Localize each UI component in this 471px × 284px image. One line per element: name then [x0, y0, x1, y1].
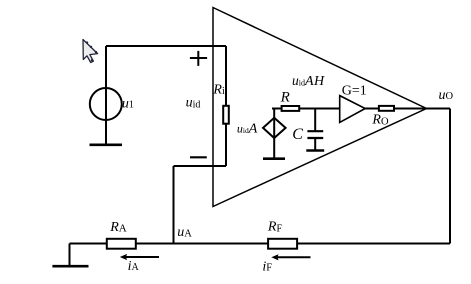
- resistor Ri: [223, 106, 229, 124]
- dependent source uidA (diamond): [263, 118, 286, 138]
- wire (vertical through source u1): [105, 46, 107, 145]
- ground (under u1): [90, 144, 123, 147]
- svg-text:uA: uA: [177, 225, 192, 240]
- ground (under capacitor): [306, 149, 324, 152]
- current arrow iA: [120, 254, 159, 260]
- svg-text:Ri: Ri: [212, 82, 225, 97]
- wire (diamond stem through dependent source): [273, 109, 275, 159]
- buffer G=1: [340, 96, 366, 123]
- svg-text:iF: iF: [262, 259, 272, 274]
- svg-text:uidA: uidA: [237, 121, 258, 136]
- plus terminal: [190, 51, 207, 66]
- capacitor C: [307, 109, 323, 151]
- svg-text:uid: uid: [186, 95, 201, 110]
- resistor RO: [379, 106, 394, 111]
- wire (output vertical down right side): [449, 109, 451, 244]
- ground (under diamond): [263, 157, 285, 160]
- svg-text:RA: RA: [109, 220, 127, 235]
- svg-text:G=1: G=1: [342, 84, 367, 99]
- wire (internal horizontal rail to apex): [272, 108, 450, 110]
- svg-text:uO: uO: [439, 88, 454, 103]
- svg-text:C: C: [292, 126, 303, 143]
- resistor RF: [268, 239, 297, 249]
- voltage source u1: [90, 88, 122, 120]
- svg-text:iA: iA: [128, 259, 140, 274]
- minus terminal: [190, 156, 207, 158]
- ground (bottom left): [52, 244, 88, 267]
- resistor R: [282, 106, 300, 111]
- wire (vertical input wire with Ri): [225, 46, 227, 166]
- mouse cursor: [83, 40, 98, 63]
- svg-text:R: R: [280, 90, 290, 106]
- current arrow iF: [271, 254, 310, 260]
- svg-text:uidAH: uidAH: [292, 73, 325, 89]
- wire (top input wire from source to Ri): [106, 45, 226, 47]
- wire (minus terminal horizontal): [174, 165, 227, 167]
- svg-text:u1: u1: [122, 96, 134, 111]
- wire (vertical down to node uA): [173, 166, 175, 244]
- svg-text:RF: RF: [267, 220, 283, 235]
- resistor RA: [107, 239, 136, 249]
- op-amp U1 (large model triangle): [213, 8, 427, 207]
- svg-text:RO: RO: [371, 113, 389, 128]
- wire (bottom feedback rail): [70, 243, 451, 245]
